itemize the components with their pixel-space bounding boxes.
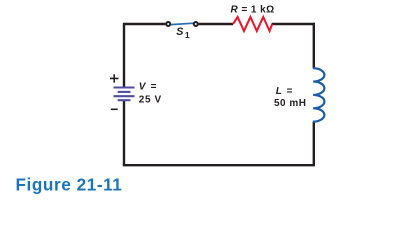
svg-text:1: 1 <box>185 30 190 40</box>
switch S1 left contact <box>166 22 170 26</box>
wire right side lower (inductor to corner) <box>313 121 315 165</box>
wire resistor to top-right corner <box>272 23 315 25</box>
battery minus sign <box>111 108 118 110</box>
wire left side lower (battery to corner) <box>123 101 125 166</box>
battery plate long <box>114 95 135 97</box>
svg-text:S: S <box>176 26 184 38</box>
resistor R1 zigzag <box>233 17 272 31</box>
wire left side upper (corner to battery) <box>123 23 125 87</box>
battery plate short <box>118 91 131 93</box>
svg-text:Figure 21-11: Figure 21-11 <box>16 174 123 194</box>
wire bottom <box>123 164 315 166</box>
wire right side upper (corner to inductor) <box>313 23 315 69</box>
svg-text:25 V: 25 V <box>139 94 162 105</box>
svg-text:L =: L = <box>276 86 294 97</box>
svg-text:V =: V = <box>139 82 158 93</box>
svg-text:50 mH: 50 mH <box>274 98 307 109</box>
switch S1 right contact <box>194 22 198 26</box>
switch S1 blade <box>171 23 194 24</box>
battery V1 plate long top <box>114 86 135 88</box>
battery plus sign <box>110 74 119 82</box>
wire between switch and resistor <box>199 23 233 25</box>
inductor L1 coil <box>313 68 324 121</box>
battery plate short bottom <box>118 99 131 101</box>
svg-text:R = 1 kΩ: R = 1 kΩ <box>231 5 275 16</box>
wire top-left segment <box>124 23 165 25</box>
